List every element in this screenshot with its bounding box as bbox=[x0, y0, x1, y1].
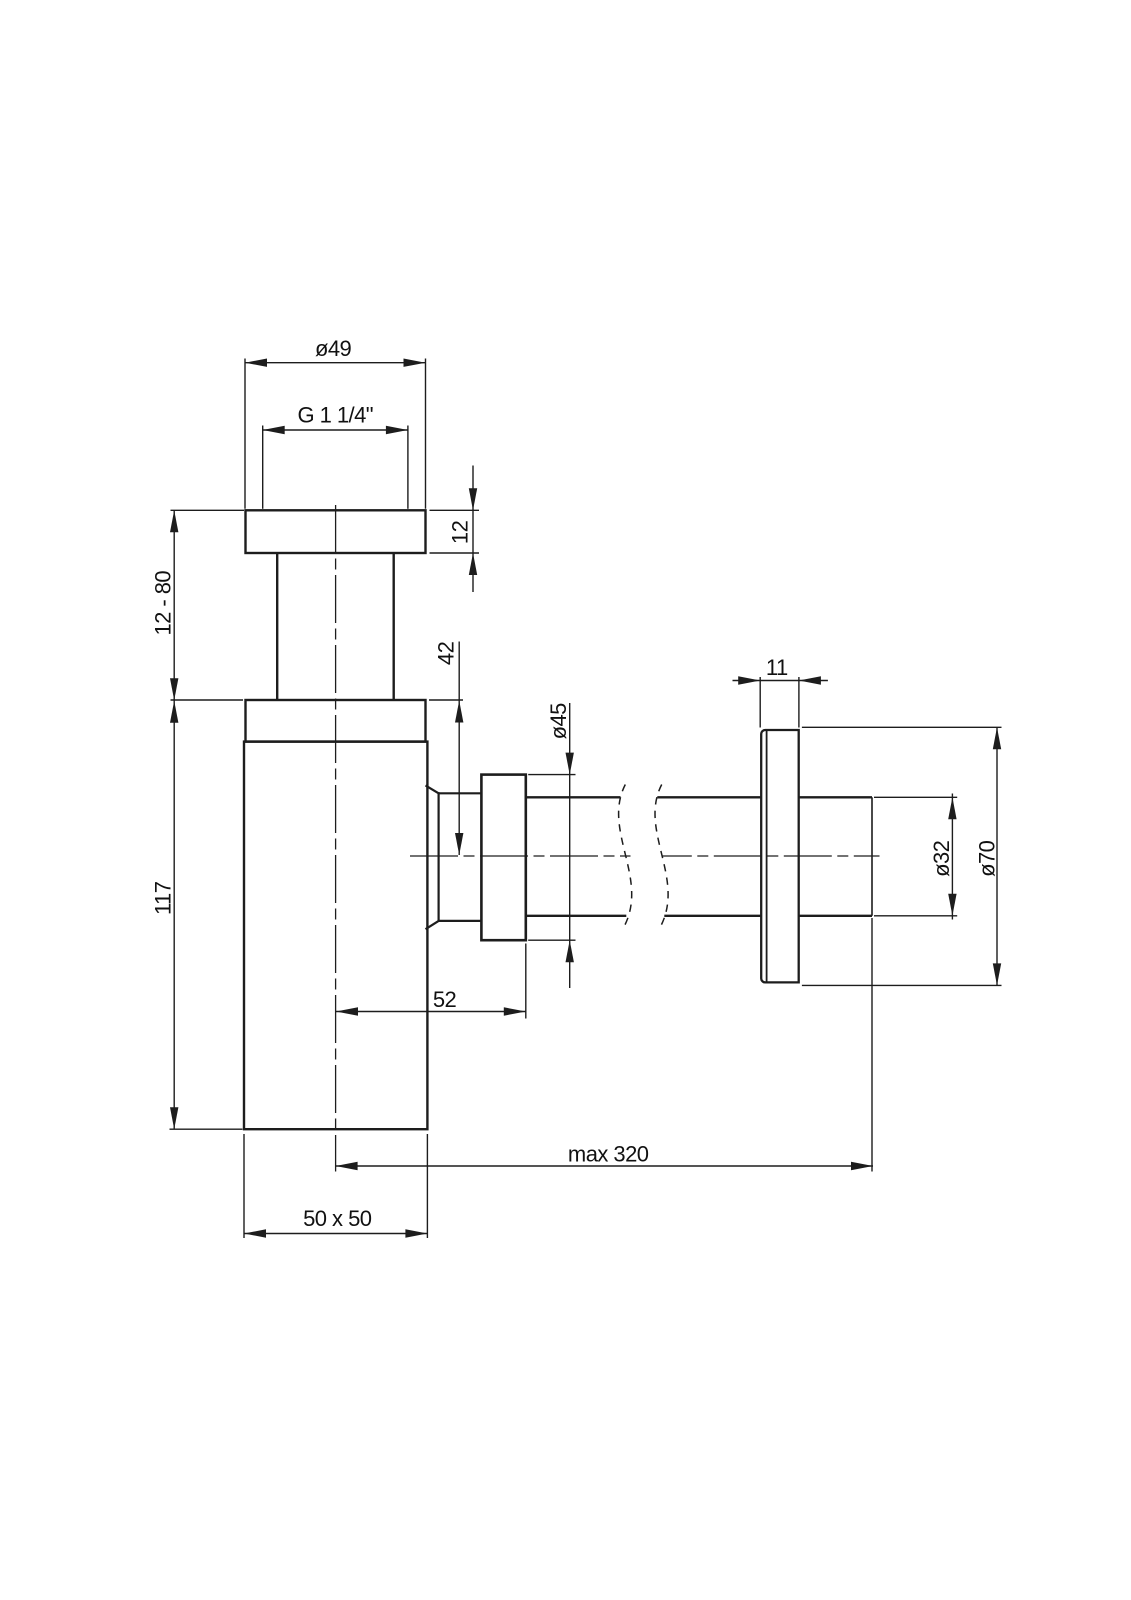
svg-text:50 x 50: 50 x 50 bbox=[303, 1206, 372, 1231]
svg-text:G 1 1/4": G 1 1/4" bbox=[298, 402, 374, 427]
svg-text:12 - 80: 12 - 80 bbox=[151, 571, 176, 636]
svg-text:max 320: max 320 bbox=[568, 1142, 649, 1167]
svg-text:ø49: ø49 bbox=[315, 336, 352, 361]
svg-text:11: 11 bbox=[766, 655, 788, 680]
svg-text:ø70: ø70 bbox=[975, 840, 1000, 877]
svg-text:52: 52 bbox=[433, 987, 457, 1012]
svg-text:42: 42 bbox=[434, 641, 459, 665]
svg-text:ø32: ø32 bbox=[929, 840, 954, 877]
svg-text:ø45: ø45 bbox=[546, 703, 571, 740]
svg-text:117: 117 bbox=[151, 881, 176, 915]
svg-text:12: 12 bbox=[448, 520, 473, 544]
